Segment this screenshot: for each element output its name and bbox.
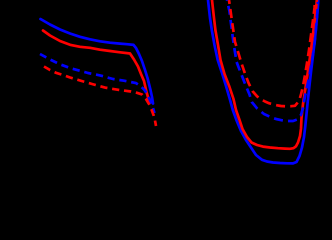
- left panel dashed red curve: [44, 67, 156, 127]
- right panel solid red curve (inner U): [212, 0, 317, 149]
- right panel solid blue curve (outer U): [208, 0, 318, 163]
- left panel solid blue curve: [41, 19, 154, 104]
- left panel solid red curve: [43, 31, 150, 103]
- right panel dashed blue curve: [227, 0, 318, 121]
- right panel dashed red curve: [229, 0, 315, 106]
- left panel dashed blue curve: [40, 54, 155, 113]
